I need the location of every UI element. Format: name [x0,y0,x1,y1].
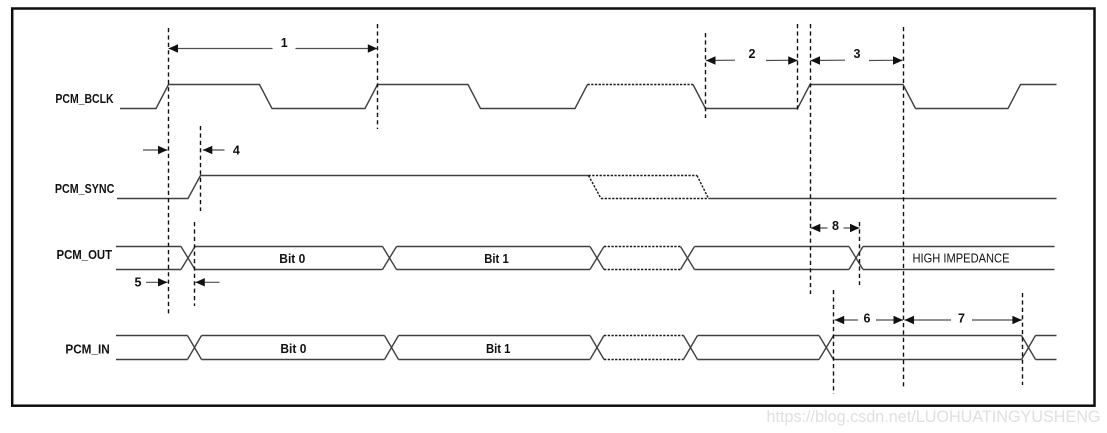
dimension 2 arrow right part [766,59,798,61]
wire PCM_IN dashed (omitted bits) segment [604,335,684,337]
wire PCM_IN segment [698,335,820,337]
dimension 5 right outside arrow [195,281,219,283]
node PCM_OUT crossover X3 [590,247,604,270]
dimension 6 arrow right part [876,319,903,321]
svg-text:7: 7 [958,312,965,326]
svg-text:8: 8 [832,219,839,233]
wire PCM_OUT dashed (omitted bits) segment [604,246,681,248]
dimension 1 (BCLK period) arrow left part [169,48,273,50]
dimension 5 left outside arrow [146,281,168,283]
ref line at PCM_IN transition end (t6 left) [833,290,835,394]
dimension 6 (IN setup) arrow left part [835,319,858,321]
ref line at BCLK falling edge (t2 left) [705,33,707,118]
dimension 1 arrow right part [296,48,378,50]
dimension 7 arrow right part [972,319,1022,321]
wire PCM_OUT Bit 0 segment [195,246,383,248]
dimension 2 (BCLK low time) arrow left part [706,59,735,61]
dimension 4 right outside arrow [203,149,225,151]
ref line at BCLK rise start (t2 right) [797,24,799,110]
svg-text:4: 4 [233,143,240,157]
node PCM_OUT crossover X4 [681,247,695,270]
node PCM_IN crossover X6 [1022,336,1036,360]
ref line at PCM_OUT first transition end [194,222,196,306]
svg-text:PCM_IN: PCM_IN [65,342,109,356]
dimension 8 arrow right part [844,227,860,229]
wire PCM_OUT high impedance segment [863,246,1055,248]
node PCM_IN crossover X1 [188,336,202,360]
svg-text:Bit 1: Bit 1 [486,342,511,356]
ref line at BCLK rise end (t3 left / t8 left) [810,24,812,294]
node PCM_IN crossover X4 [684,336,698,360]
wire PCM_OUT Bit 1 segment [397,246,591,248]
wire PCM_IN segment after X5 [834,335,1022,337]
node PCM_OUT crossover X5 [849,247,863,270]
svg-text:Bit 1: Bit 1 [484,252,509,266]
wire PCM_OUT bus segment before first transition [116,246,181,248]
svg-text:5: 5 [135,276,142,290]
svg-text:3: 3 [854,47,861,61]
wire PCM_BCLK dashed high segment [588,84,694,86]
wire PCM_SYNC waveform (solid right: low) [709,198,1057,200]
dimension 8 (OUT disable) arrow left part [811,227,828,229]
dimension 7 (IN hold) arrow left part [905,319,952,321]
svg-text:Bit 0: Bit 0 [280,342,306,356]
node PCM_OUT crossover X1 [181,247,195,270]
svg-text:Bit 0: Bit 0 [279,252,305,266]
ref line at PCM_IN last transition (t7 right) [1022,293,1024,385]
svg-text:PCM_BCLK: PCM_BCLK [55,92,113,106]
wire PCM_IN bus segment before first transition [116,335,188,337]
svg-text:HIGH IMPEDANCE: HIGH IMPEDANCE [913,252,1010,266]
ref line at BCLK second rising edge [377,24,379,129]
svg-text:https://blog.csdn.net/LUOHUATI: https://blog.csdn.net/LUOHUATINGYUSHENG [767,407,1101,426]
wire PCM_OUT last-bit segment [695,246,850,248]
wire PCM_IN trailing segment [1036,335,1057,337]
dimension 4 (SYNC delay) left outside arrow [143,149,168,151]
wire PCM_SYNC waveform (solid left: low then rise to high) [117,176,589,199]
svg-text:6: 6 [864,312,871,326]
svg-text:1: 1 [281,36,288,50]
wire PCM_BCLK waveform (solid part, left) [120,85,588,109]
svg-text:2: 2 [749,47,756,61]
wire PCM_IN Bit 0 segment [202,335,385,337]
node PCM_IN crossover X5 [819,336,834,360]
ref line at SYNC rise end [200,126,202,211]
wire PCM_BCLK waveform (solid part, right) [693,85,1057,109]
dimension 3 arrow right part [869,59,903,61]
ref line at BCLK fall start (t3/t6 right, t7 left) [903,27,905,389]
node PCM_IN crossover X3 [590,336,604,360]
dimension 3 (BCLK high time) arrow left part [811,59,846,61]
node PCM_IN crossover X2 [385,336,399,360]
node PCM_OUT crossover X2 [383,247,397,270]
svg-text:PCM_SYNC: PCM_SYNC [55,182,114,196]
wire PCM_SYNC dashed transition region (parallelogram) [589,175,698,177]
svg-text:PCM_OUT: PCM_OUT [57,248,113,262]
wire PCM_IN Bit 1 segment [399,335,591,337]
ref line at PCM_OUT hi-Z transition end (t8 right) [859,222,861,285]
ref line at BCLK first rising edge [168,28,170,315]
